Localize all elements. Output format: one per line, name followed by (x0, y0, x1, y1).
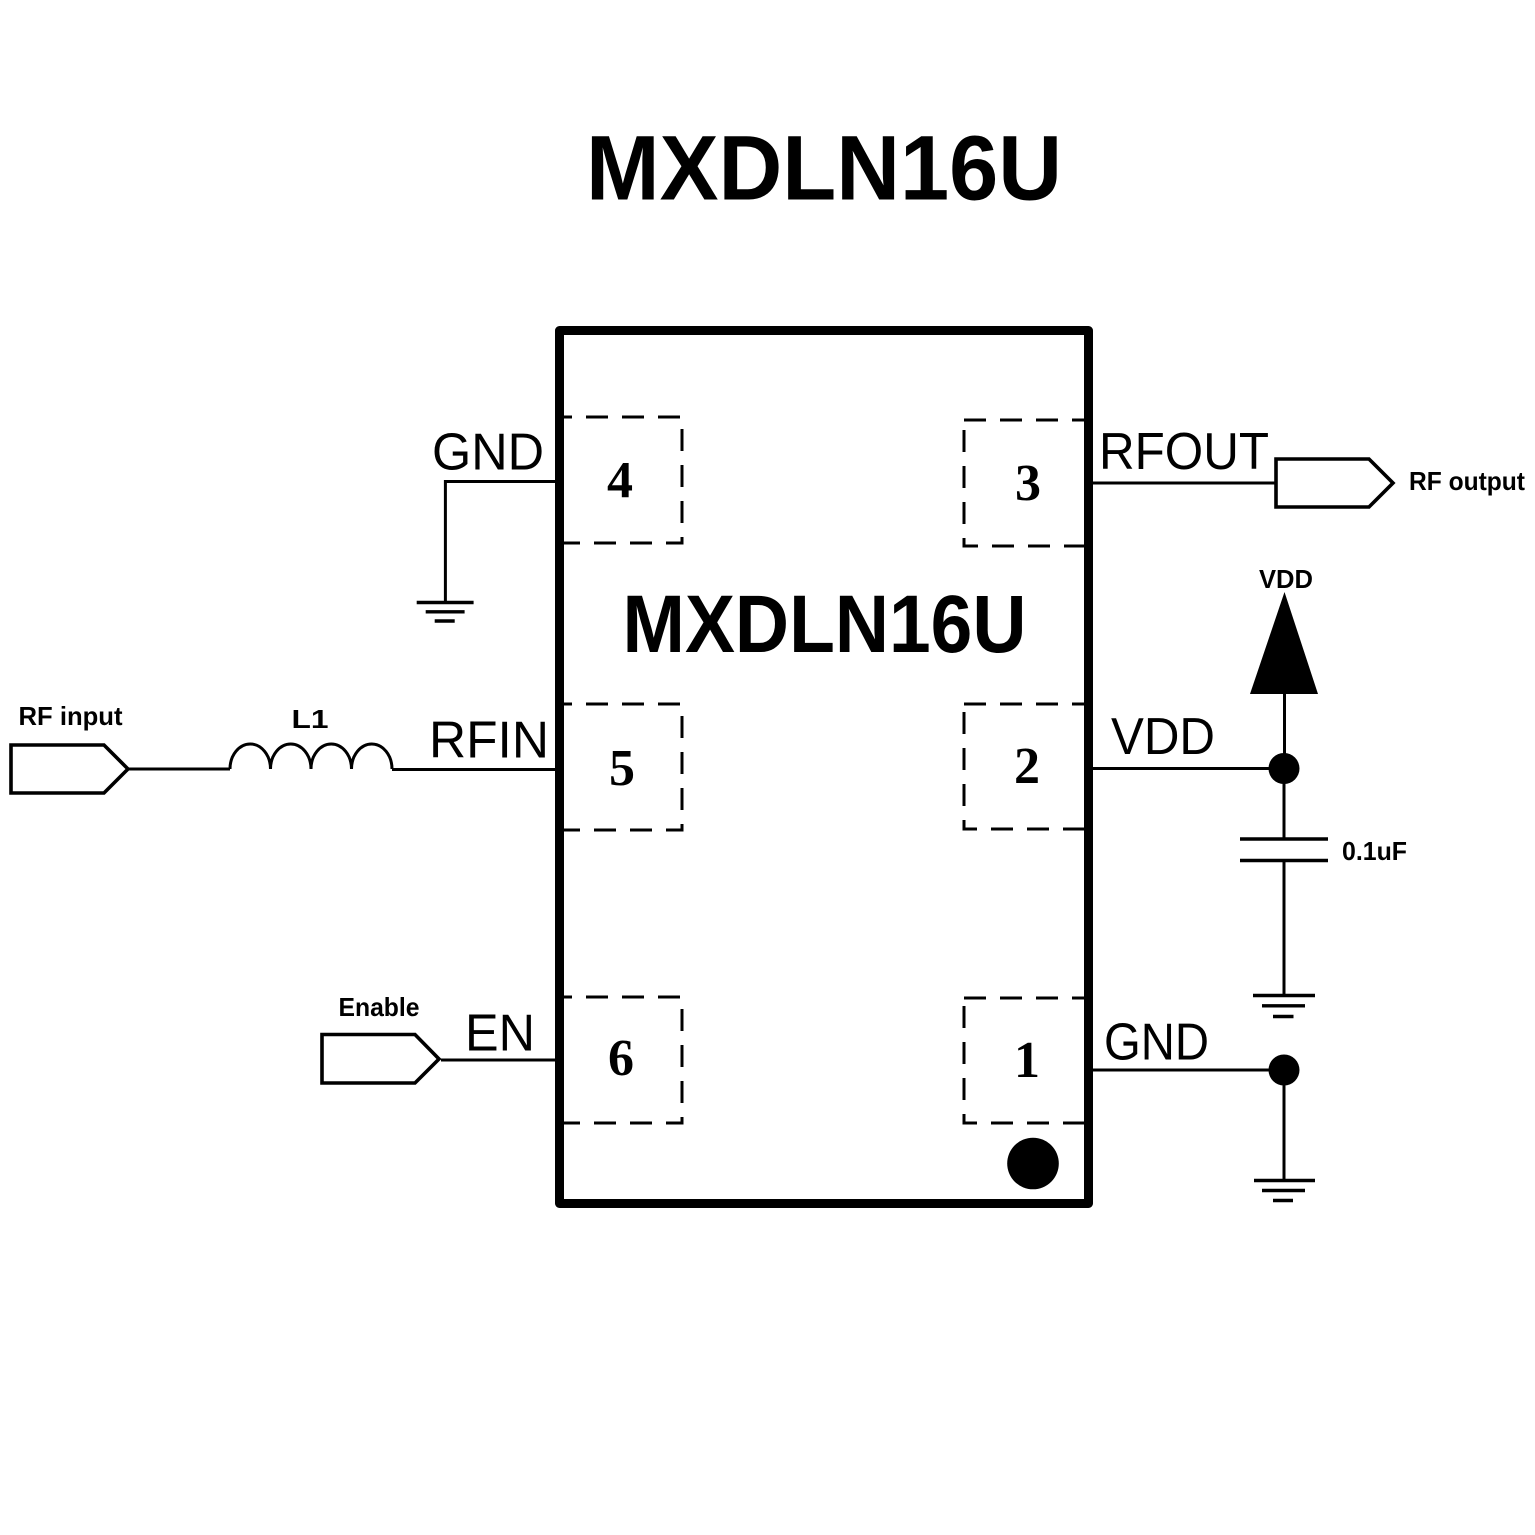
wire node to ground (1283, 1070, 1286, 1180)
Enable connector flag (322, 1035, 439, 1084)
svg-text:MXDLN16U: MXDLN16U (623, 579, 1027, 670)
pin 5 dashed box (560, 704, 682, 830)
wire pin4 to ground (445, 482, 555, 602)
pin 4 dashed box (560, 417, 682, 543)
ground symbol capacitor (1253, 996, 1315, 1017)
svg-text:VDD: VDD (1259, 564, 1313, 594)
svg-text:GND: GND (432, 424, 544, 482)
pin 3 dashed box (964, 420, 1088, 546)
svg-text:GND: GND (1104, 1014, 1209, 1072)
svg-text:5: 5 (609, 740, 635, 797)
svg-text:MXDLN16U: MXDLN16U (586, 118, 1062, 220)
svg-text:EN: EN (465, 1005, 535, 1063)
svg-text:2: 2 (1014, 738, 1040, 795)
inductor L1 (230, 744, 392, 769)
pin 1 dashed box (964, 998, 1088, 1123)
wire pin 3 to RF output (1093, 482, 1276, 485)
pin 2 dashed box (964, 704, 1088, 829)
wire capacitor to ground (1283, 861, 1286, 996)
svg-text:L1: L1 (292, 704, 329, 734)
IC U1 body (560, 331, 1089, 1204)
wire pin 2 to VDD node (1093, 767, 1284, 770)
ground symbol pin4 (417, 603, 474, 622)
svg-text:RF input: RF input (19, 701, 123, 731)
wire pin 1 to GND node (1093, 1069, 1284, 1072)
wire RF input to L1 (128, 768, 230, 771)
VDD supply triangle (1250, 592, 1318, 694)
svg-text:RFOUT: RFOUT (1099, 423, 1269, 481)
svg-text:3: 3 (1015, 455, 1041, 512)
svg-text:4: 4 (607, 452, 633, 509)
svg-text:1: 1 (1014, 1032, 1040, 1089)
node VDD junction dot (1269, 753, 1300, 784)
pin 6 dashed box (560, 997, 682, 1123)
svg-text:VDD: VDD (1111, 708, 1215, 766)
svg-text:6: 6 (608, 1030, 634, 1087)
pin 1 marker dot (1007, 1138, 1059, 1190)
ground symbol pin 1 (1254, 1181, 1315, 1201)
RF output connector flag (1276, 459, 1393, 507)
svg-text:0.1uF: 0.1uF (1342, 836, 1407, 866)
capacitor C1 0.1uF (1240, 839, 1328, 861)
node GND junction dot (1269, 1055, 1300, 1086)
RF input connector flag (11, 745, 128, 793)
svg-text:Enable: Enable (339, 992, 420, 1022)
wire node to capacitor (1283, 769, 1286, 839)
svg-text:RF output: RF output (1409, 466, 1525, 496)
wire Enable to pin 6 (441, 1059, 555, 1062)
svg-text:RFIN: RFIN (429, 712, 549, 770)
wire L1 to pin 5 (392, 768, 555, 771)
wire VDD triangle to node (1283, 694, 1286, 770)
